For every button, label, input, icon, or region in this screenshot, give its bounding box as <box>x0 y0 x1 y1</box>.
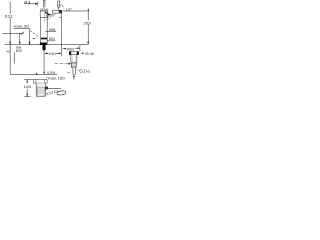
bl flange <box>34 79 48 83</box>
svg-text:0,5%: 0,5% <box>47 71 56 75</box>
svg-text:209: 209 <box>84 20 91 25</box>
O63 dim tails <box>62 48 65 50</box>
max160 lead dash <box>46 77 48 79</box>
svg-text:G1¼: G1¼ <box>79 68 90 73</box>
svg-text:41: 41 <box>24 0 32 4</box>
105 top arrow <box>26 80 28 83</box>
left small dim ext line y33.3 <box>2 32 23 34</box>
209 arrow up <box>87 8 89 11</box>
140 left arrow <box>45 52 48 54</box>
deck line <box>4 44 88 46</box>
left small dim arrow tick <box>21 32 24 35</box>
waste body sides <box>70 55 72 63</box>
text labels <box>4 0 93 89</box>
pull rod horizontal <box>48 88 61 90</box>
bl body interior <box>36 83 45 96</box>
waste flange outline <box>69 51 78 54</box>
waste thread section <box>70 63 72 68</box>
svg-text:105: 105 <box>23 85 31 89</box>
faucet technical dimension drawing <box>0 0 100 100</box>
140 dim lines <box>45 52 48 54</box>
41 dim line <box>24 3 35 5</box>
35-45 left arrow <box>81 52 83 54</box>
ext line from spout tip down <box>60 13 62 56</box>
209 arrow down <box>87 42 89 45</box>
lever pivot circle <box>47 15 49 17</box>
svg-text:max.30: max.30 <box>14 23 31 28</box>
waste tail <box>72 68 74 75</box>
small leader dash at band <box>33 37 36 39</box>
bottom-left waste ext top <box>24 79 33 81</box>
O48 / O34 leaders <box>45 31 56 41</box>
rod down arrow <box>43 72 45 75</box>
svg-text:140: 140 <box>49 51 57 56</box>
105 dim <box>26 80 28 84</box>
svg-text:50°: 50° <box>50 14 56 18</box>
105 bottom arrow <box>26 94 28 97</box>
escutcheon <box>40 43 47 46</box>
waste bottom stub <box>73 77 75 79</box>
waste centerline arrow <box>69 63 71 65</box>
max.30 leader underline <box>14 29 30 45</box>
svg-text:35-45: 35-45 <box>85 51 94 56</box>
spout bar outline <box>53 11 62 14</box>
filled shapes <box>9 3 89 97</box>
svg-text:Ø56: Ø56 <box>40 8 48 12</box>
label leader vline <box>13 52 15 64</box>
shank below deck <box>43 45 46 50</box>
rod end loop <box>57 90 67 95</box>
svg-text:Ø63: Ø63 <box>67 46 74 51</box>
small tri on y74.5 line <box>36 73 38 75</box>
O63 left arrow <box>65 48 67 50</box>
209 dim line <box>87 11 89 20</box>
lever stroke <box>45 12 51 15</box>
G1 1/4 leader <box>77 69 79 71</box>
second dim line x19.75 <box>19 33 21 44</box>
bottom hline y74.55 <box>10 74 57 76</box>
max.30 diagonal leader <box>30 30 39 37</box>
pull rod clamp on waste <box>45 87 47 89</box>
head outline <box>39 11 41 17</box>
arrow second dim down <box>19 42 21 45</box>
arrow 311 down <box>9 42 11 45</box>
arrow max30 dim down <box>29 42 31 45</box>
bl body <box>35 83 37 96</box>
aerator dark end <box>59 10 62 13</box>
arrow 41 right <box>35 3 38 5</box>
15deg leader arc <box>61 4 64 7</box>
waste centerline <box>55 63 69 65</box>
flange hatch blocks <box>69 52 71 55</box>
below deck rod line <box>43 50 45 72</box>
lever swing dashed arc <box>47 17 52 20</box>
41 ext tick <box>37 2 39 6</box>
body band <box>41 38 48 40</box>
svg-text:311: 311 <box>4 14 14 19</box>
svg-text:Ø35: Ø35 <box>16 49 22 53</box>
ext hline y11 to 209 dim <box>63 10 87 12</box>
O63 right arrow <box>77 47 79 49</box>
svg-text:max.160: max.160 <box>48 76 65 80</box>
small tick near x36.7 <box>36 73 38 75</box>
waste bottom up arrow <box>73 75 75 78</box>
pull rod dashed tilted <box>47 91 59 95</box>
311 dim line upper <box>9 2 11 14</box>
rod pair (lever up) <box>43 1 45 8</box>
140 right arrow <box>59 52 62 54</box>
knob (pull rod) <box>57 1 59 5</box>
body sides <box>40 17 42 43</box>
svg-text:45: 45 <box>6 49 10 53</box>
tick below spout <box>59 16 62 18</box>
inner cartridge line <box>44 13 46 22</box>
svg-text:15°: 15° <box>65 7 72 12</box>
311 dim line lower + below deck <box>9 18 11 45</box>
